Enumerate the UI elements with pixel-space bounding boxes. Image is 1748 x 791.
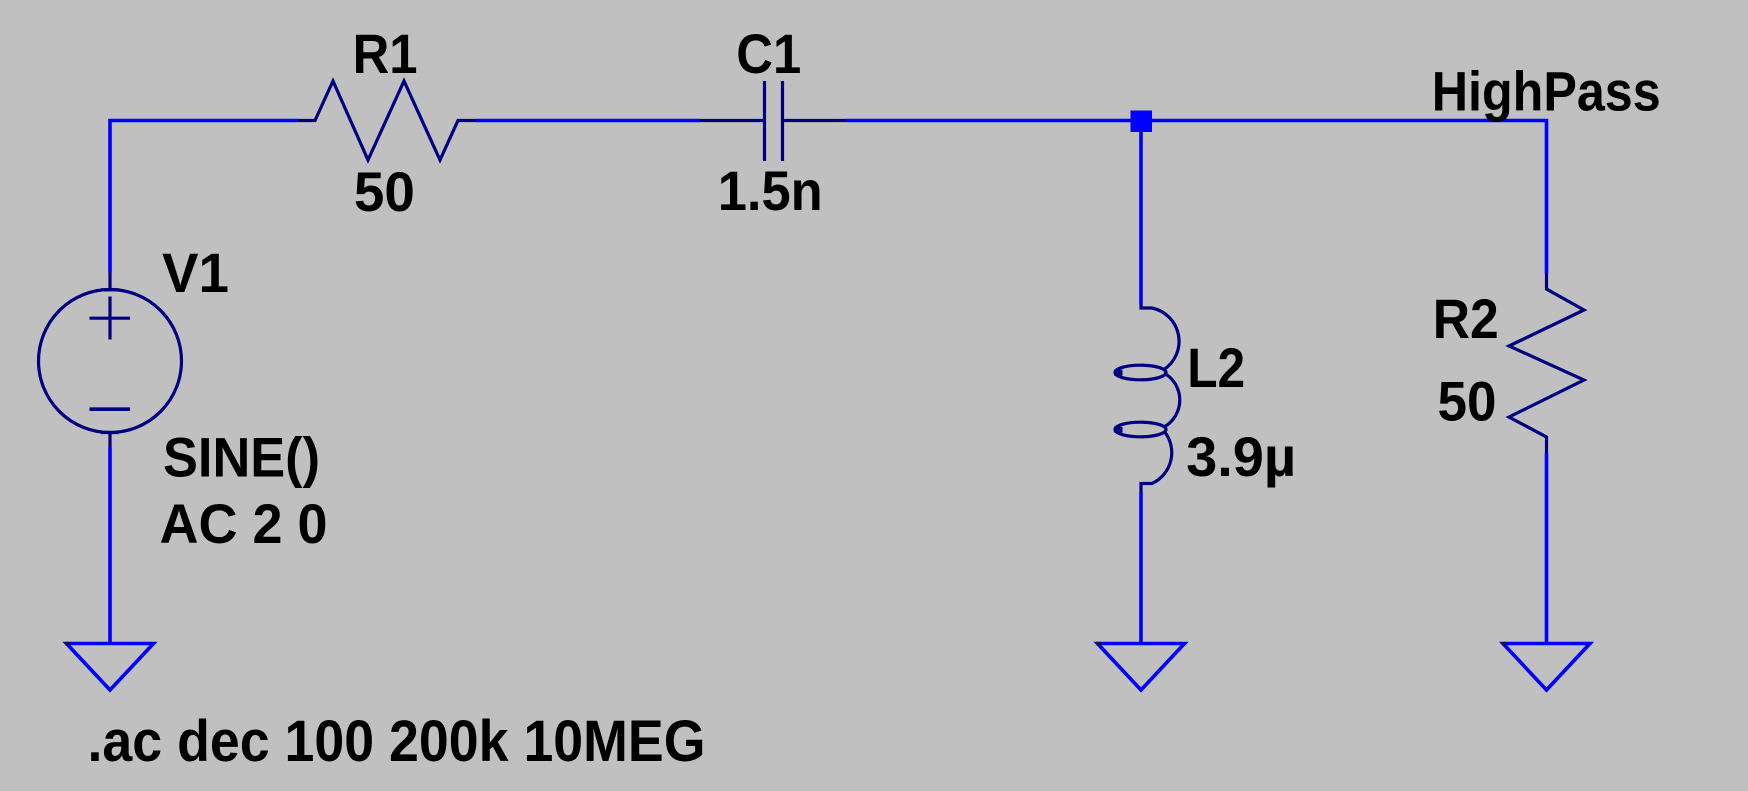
wire R1 to C1 (476, 119, 700, 123)
svg-text:C1: C1 (736, 22, 801, 85)
svg-text:V1: V1 (162, 241, 229, 304)
svg-text:.ac dec 100 200k 10MEG: .ac dec 100 200k 10MEG (88, 709, 706, 774)
inductor L2 (1114, 304, 1180, 493)
wire top-left corner: left vertical drop and horizontal run to R1 (110, 121, 298, 273)
svg-text:R1: R1 (353, 22, 418, 85)
ground (R2) (1503, 644, 1590, 691)
svg-text:R2: R2 (1433, 287, 1499, 350)
node junction (solid square) (1131, 111, 1153, 133)
svg-text:50: 50 (354, 160, 415, 223)
svg-text:50: 50 (1438, 369, 1497, 432)
wire R2 to ground (1545, 453, 1549, 644)
wire C1 to node and down to R2 corner (846, 121, 1547, 274)
svg-text:1.5n: 1.5n (718, 159, 823, 222)
wire node to L2 (1139, 121, 1143, 304)
svg-text:L2: L2 (1187, 336, 1245, 399)
svg-text:HighPass: HighPass (1432, 60, 1661, 123)
ground (V1) (67, 644, 154, 691)
voltage source V1 (39, 273, 182, 448)
ground (L2) (1098, 644, 1185, 691)
resistor R2 (1509, 274, 1584, 454)
resistor R1 (298, 81, 476, 160)
svg-text:SINE(): SINE() (163, 426, 320, 489)
wire V1 to ground (108, 448, 112, 644)
svg-text:AC 2 0: AC 2 0 (160, 492, 328, 555)
capacitor C1 (700, 81, 846, 161)
wire L2 to ground (1139, 492, 1143, 644)
svg-text:3.9µ: 3.9µ (1186, 425, 1296, 488)
